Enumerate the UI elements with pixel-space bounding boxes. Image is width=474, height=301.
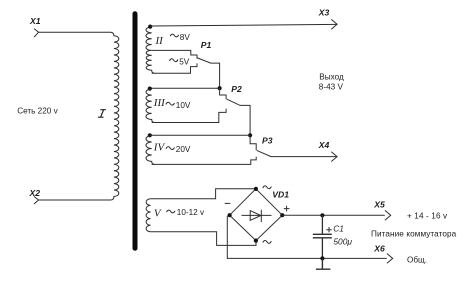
label V: [154, 207, 162, 219]
label X4: [318, 140, 330, 150]
bridge node AC top: [254, 187, 258, 191]
svg-text:C1: C1: [333, 224, 344, 234]
winding IV: [146, 136, 155, 165]
svg-text:10V: 10V: [176, 101, 191, 110]
svg-text:P1: P1: [201, 40, 212, 50]
label Выход 8-43 V: [319, 73, 344, 92]
arrow X4: [331, 152, 337, 162]
label X2: [29, 188, 41, 198]
label plus: [284, 206, 290, 212]
wire winding V top to bridge AC1: [151, 189, 256, 199]
label ~10-12 v: [167, 208, 206, 217]
wire winding III top rail: [150, 87, 220, 89]
svg-text:20V: 20V: [176, 145, 191, 154]
winding II: [146, 27, 155, 73]
polarity dot winding III: [148, 87, 152, 91]
switch P1 arm: [197, 58, 219, 88]
label minus: [225, 202, 231, 204]
wire winding II bottom to P1 lower contact: [152, 63, 197, 73]
label ~20V: [166, 145, 191, 154]
svg-text:10-12 v: 10-12 v: [177, 208, 205, 217]
label ~ AC bottom: [263, 240, 272, 243]
capacitor C1: [313, 215, 332, 258]
label plus C1: [326, 227, 331, 232]
label X3: [318, 8, 330, 18]
polarity dot winding II: [148, 25, 152, 29]
wire X3 rail: [150, 24, 336, 26]
node junction P2 output: [248, 133, 252, 137]
terminal X2: [34, 196, 39, 204]
node capacitor plus: [320, 213, 324, 217]
svg-text:5V: 5V: [179, 57, 190, 66]
winding V: [146, 199, 151, 232]
bridge node plus: [280, 213, 284, 217]
ground: [316, 258, 331, 269]
wire X1 to primary winding: [39, 31, 111, 33]
wire plus rail to X5: [282, 214, 385, 216]
label 500u: [333, 236, 352, 246]
label Общ.: [407, 255, 427, 264]
label Питание коммутатора: [371, 229, 457, 238]
wire minus rail to X6: [227, 216, 386, 259]
wire winding IV top rail: [150, 134, 250, 136]
svg-text:III: III: [153, 97, 166, 109]
svg-text:Выход: Выход: [319, 73, 344, 82]
label ~ AC top: [263, 186, 272, 189]
svg-text:+ 14 - 16 v: + 14 - 16 v: [407, 211, 448, 220]
svg-text:P3: P3: [262, 135, 273, 145]
svg-text:X5: X5: [373, 199, 385, 209]
bridge node minus: [228, 213, 232, 217]
label P3: [262, 135, 273, 145]
label P2: [231, 84, 242, 94]
wire winding IV bottom to P3 lower contact: [152, 157, 257, 165]
P2 upper contact: [220, 88, 227, 99]
polarity dot winding IV: [148, 133, 152, 137]
svg-text:8V: 8V: [180, 33, 191, 42]
diode symbol inside VD1: [242, 210, 272, 222]
switch P3 arm: [257, 150, 337, 156]
node junction P1 output: [218, 86, 222, 90]
bridge node AC bottom: [254, 239, 258, 243]
transformer core: [133, 14, 138, 248]
wire 5V tap to P1 upper contact: [152, 50, 197, 58]
label P1: [201, 40, 212, 50]
terminal X1: [34, 29, 39, 38]
svg-text:Питание коммутатора: Питание коммутатора: [371, 229, 457, 238]
label Сеть 220 v: [17, 107, 58, 116]
label ~5V: [170, 57, 190, 66]
switch P2 arm: [227, 99, 250, 135]
label II: [155, 35, 165, 47]
label X6: [373, 243, 385, 253]
label X1: [29, 16, 41, 26]
label III: [153, 97, 166, 109]
label IV: [153, 141, 166, 153]
wire X2 to primary winding: [39, 199, 111, 201]
svg-text:P2: P2: [231, 84, 242, 94]
wire winding III bottom to P2 lower contact: [152, 109, 226, 123]
svg-text:X1: X1: [29, 16, 41, 26]
label ~10V: [166, 101, 191, 110]
svg-text:X2: X2: [29, 188, 41, 198]
arrow X6: [387, 254, 393, 264]
label C1: [333, 224, 344, 234]
arrow X3: [331, 19, 337, 29]
label +14-16 v: [407, 211, 448, 220]
label VD1: [272, 189, 289, 199]
bridge rectifier VD1 diamond: [230, 189, 283, 241]
P3 upper contact: [250, 135, 256, 150]
svg-text:8-43 V: 8-43 V: [319, 82, 344, 91]
label I: [98, 110, 106, 118]
svg-text:II: II: [155, 35, 165, 47]
svg-text:500μ: 500μ: [333, 236, 352, 246]
svg-text:X6: X6: [373, 243, 385, 253]
label X5: [373, 199, 385, 209]
primary winding I: [110, 32, 118, 200]
wire winding V bottom to bridge AC2: [151, 232, 256, 246]
svg-text:Общ.: Общ.: [407, 255, 427, 264]
svg-text:Сеть 220 v: Сеть 220 v: [17, 107, 58, 116]
svg-text:VD1: VD1: [272, 189, 289, 199]
svg-text:IV: IV: [153, 141, 166, 153]
svg-text:X3: X3: [318, 8, 330, 18]
arrow X5: [385, 210, 391, 220]
label ~8V: [170, 33, 190, 42]
winding III: [146, 89, 155, 123]
svg-text:X4: X4: [318, 140, 330, 150]
node capacitor minus: [320, 256, 324, 260]
